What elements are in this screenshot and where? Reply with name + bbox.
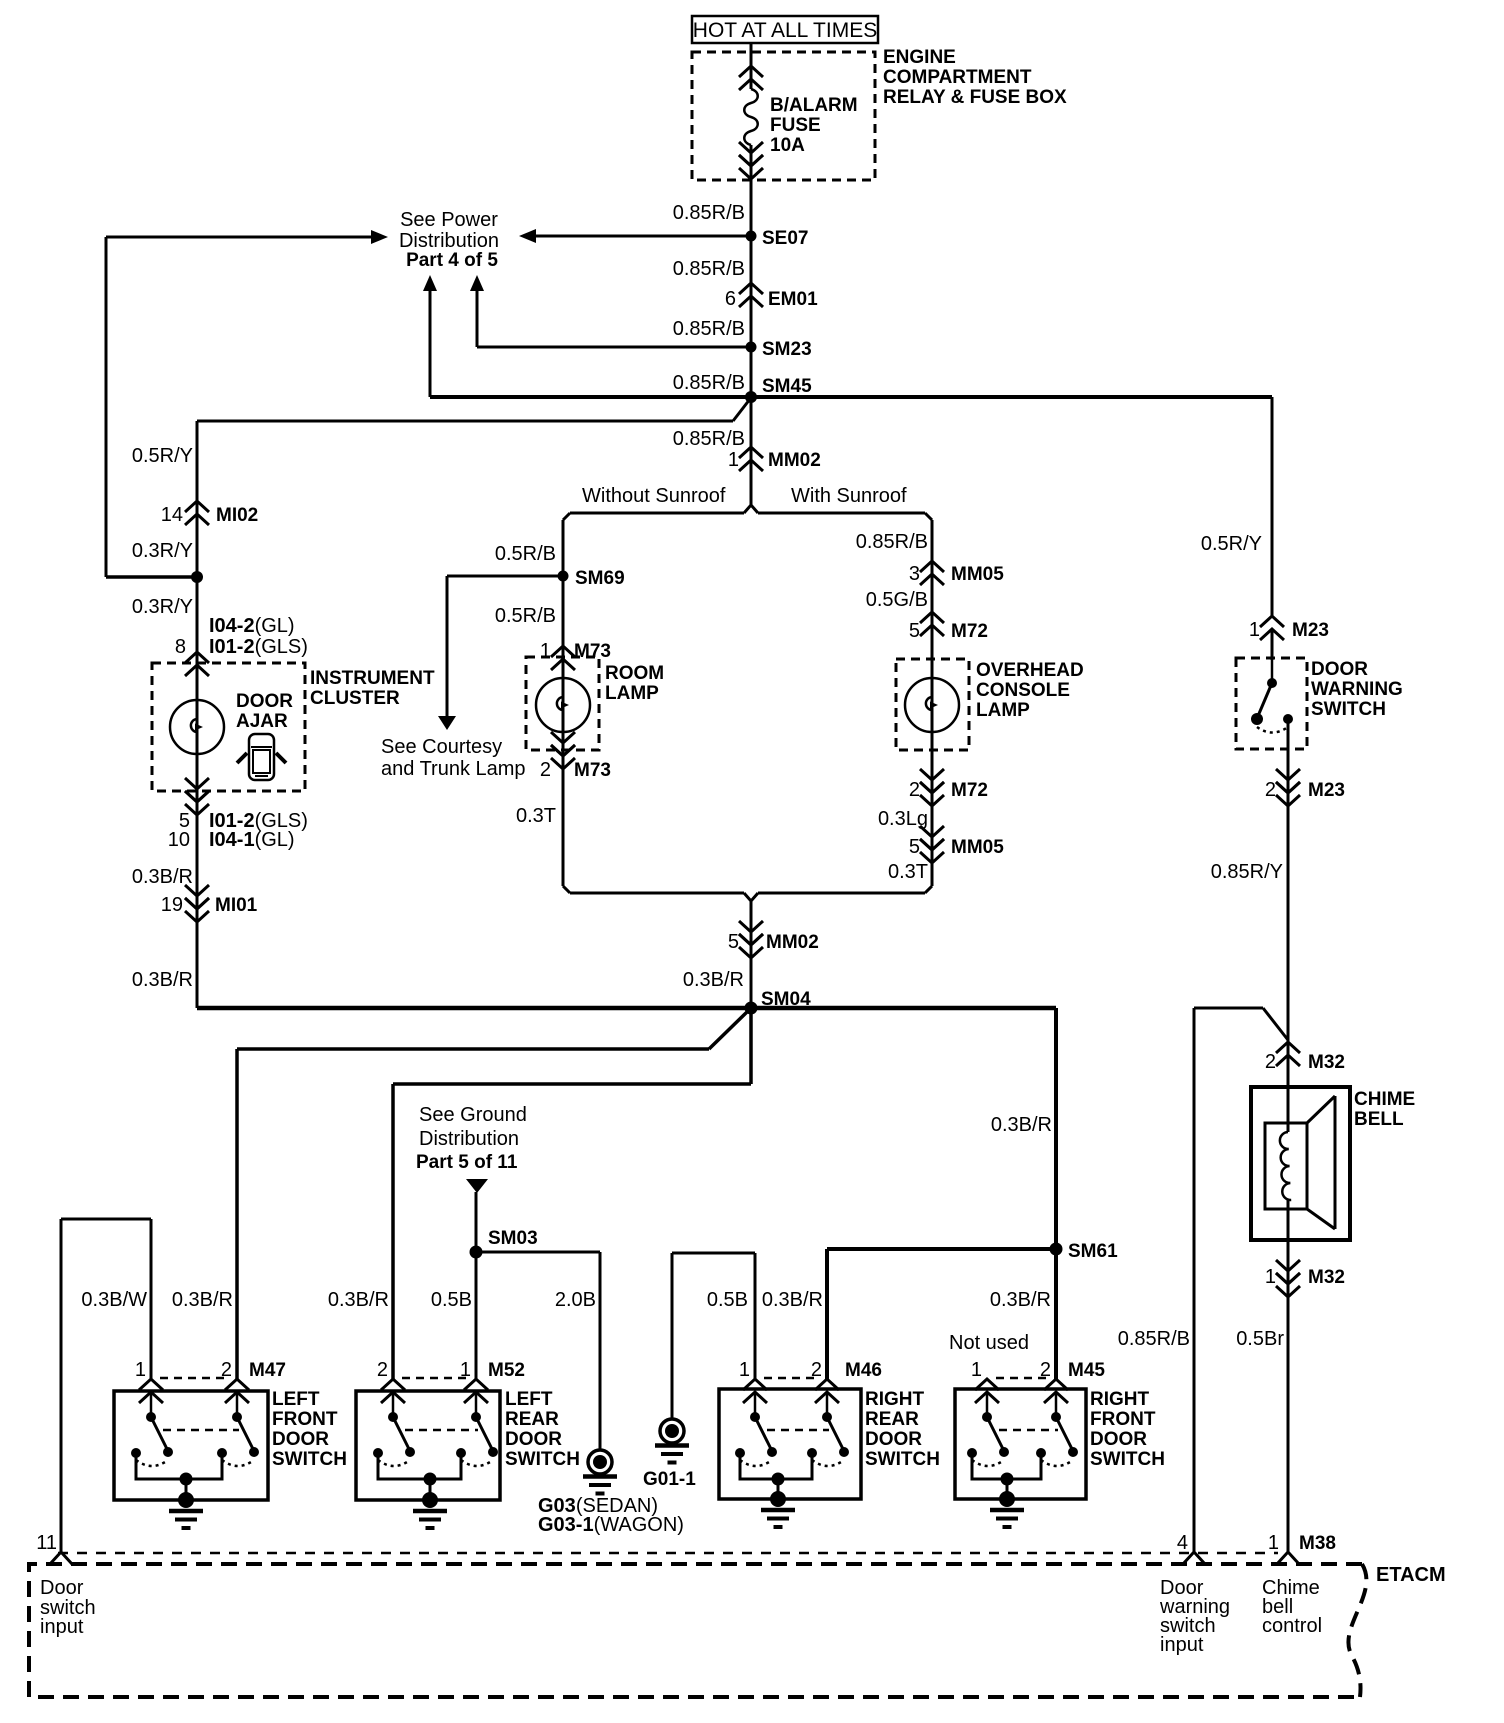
svg-text:RIGHT: RIGHT bbox=[1090, 1389, 1150, 1410]
svg-text:ETACM: ETACM bbox=[1376, 1564, 1446, 1586]
svg-text:M73: M73 bbox=[574, 760, 611, 781]
svg-text:CONSOLE: CONSOLE bbox=[976, 680, 1070, 701]
svg-text:0.5R/B: 0.5R/B bbox=[495, 605, 556, 627]
svg-text:REAR: REAR bbox=[505, 1409, 559, 1430]
svg-text:Door: Door bbox=[40, 1577, 84, 1599]
svg-text:0.85R/B: 0.85R/B bbox=[1118, 1328, 1190, 1350]
svg-text:2: 2 bbox=[909, 779, 920, 801]
svg-text:6: 6 bbox=[725, 288, 736, 310]
svg-text:10: 10 bbox=[168, 829, 190, 851]
svg-text:2: 2 bbox=[540, 759, 551, 781]
svg-text:With Sunroof: With Sunroof bbox=[791, 485, 907, 507]
svg-text:AJAR: AJAR bbox=[236, 711, 288, 732]
svg-text:1: 1 bbox=[728, 449, 739, 471]
svg-text:2.0B: 2.0B bbox=[555, 1289, 596, 1311]
svg-text:MM02: MM02 bbox=[768, 450, 821, 471]
svg-text:Distribution: Distribution bbox=[419, 1128, 519, 1150]
svg-text:0.85R/B: 0.85R/B bbox=[673, 258, 745, 280]
svg-text:1: 1 bbox=[739, 1359, 750, 1381]
svg-text:M52: M52 bbox=[488, 1360, 525, 1381]
svg-text:0.3B/R: 0.3B/R bbox=[132, 969, 193, 991]
svg-text:1: 1 bbox=[1249, 619, 1260, 641]
svg-text:See Ground: See Ground bbox=[419, 1104, 527, 1126]
svg-text:0.5G/B: 0.5G/B bbox=[866, 589, 928, 611]
svg-text:0.3B/R: 0.3B/R bbox=[762, 1289, 823, 1311]
svg-text:SWITCH: SWITCH bbox=[1311, 699, 1386, 720]
svg-text:2: 2 bbox=[1265, 779, 1276, 801]
svg-text:8: 8 bbox=[175, 636, 186, 658]
svg-text:G01-1: G01-1 bbox=[643, 1469, 696, 1490]
svg-text:0.3B/R: 0.3B/R bbox=[683, 969, 744, 991]
svg-text:LAMP: LAMP bbox=[605, 683, 659, 704]
svg-text:11: 11 bbox=[36, 1532, 57, 1554]
svg-text:0.3R/Y: 0.3R/Y bbox=[132, 596, 193, 618]
svg-text:1: 1 bbox=[540, 640, 551, 662]
svg-text:0.5B: 0.5B bbox=[431, 1289, 472, 1311]
svg-text:M72: M72 bbox=[951, 621, 988, 642]
svg-text:See Courtesy: See Courtesy bbox=[381, 736, 502, 758]
svg-text:LAMP: LAMP bbox=[976, 700, 1030, 721]
svg-text:0.5R/Y: 0.5R/Y bbox=[1201, 533, 1262, 555]
svg-text:I04-1(GL): I04-1(GL) bbox=[209, 829, 295, 851]
svg-text:Not used: Not used bbox=[949, 1332, 1029, 1354]
svg-text:FRONT: FRONT bbox=[272, 1409, 338, 1430]
svg-text:3: 3 bbox=[909, 563, 920, 585]
svg-text:5: 5 bbox=[909, 620, 920, 642]
svg-text:0.85R/B: 0.85R/B bbox=[673, 428, 745, 450]
svg-text:DOOR: DOOR bbox=[236, 691, 293, 712]
svg-text:Distribution: Distribution bbox=[399, 230, 499, 252]
svg-text:MM05: MM05 bbox=[951, 837, 1004, 858]
svg-text:EM01: EM01 bbox=[768, 289, 818, 310]
svg-text:ROOM: ROOM bbox=[605, 663, 664, 684]
svg-text:0.3B/R: 0.3B/R bbox=[991, 1114, 1052, 1136]
svg-text:REAR: REAR bbox=[865, 1409, 919, 1430]
svg-text:M73: M73 bbox=[574, 641, 611, 662]
svg-text:and Trunk Lamp: and Trunk Lamp bbox=[381, 758, 526, 780]
svg-text:1: 1 bbox=[1265, 1266, 1276, 1288]
svg-text:1: 1 bbox=[1268, 1532, 1279, 1554]
svg-text:1: 1 bbox=[971, 1359, 982, 1381]
svg-text:1: 1 bbox=[135, 1359, 146, 1381]
svg-text:2: 2 bbox=[377, 1359, 388, 1381]
svg-text:SM23: SM23 bbox=[762, 339, 812, 360]
svg-text:M46: M46 bbox=[845, 1360, 882, 1381]
svg-text:0.3B/R: 0.3B/R bbox=[132, 866, 193, 888]
svg-text:0.85R/B: 0.85R/B bbox=[673, 318, 745, 340]
svg-text:4: 4 bbox=[1177, 1532, 1188, 1554]
svg-text:COMPARTMENT: COMPARTMENT bbox=[883, 67, 1032, 88]
svg-text:0.85R/B: 0.85R/B bbox=[673, 372, 745, 394]
svg-text:0.3B/R: 0.3B/R bbox=[990, 1289, 1051, 1311]
svg-text:0.5R/Y: 0.5R/Y bbox=[132, 445, 193, 467]
svg-text:M47: M47 bbox=[249, 1360, 286, 1381]
svg-text:0.3B/R: 0.3B/R bbox=[328, 1289, 389, 1311]
svg-text:WARNING: WARNING bbox=[1311, 679, 1403, 700]
svg-text:M32: M32 bbox=[1308, 1052, 1345, 1073]
svg-text:B/ALARM: B/ALARM bbox=[770, 95, 858, 116]
svg-text:HOT AT ALL TIMES: HOT AT ALL TIMES bbox=[693, 19, 877, 42]
svg-text:M45: M45 bbox=[1068, 1360, 1105, 1381]
svg-text:input: input bbox=[40, 1616, 84, 1638]
svg-text:0.3R/Y: 0.3R/Y bbox=[132, 540, 193, 562]
svg-text:control: control bbox=[1262, 1615, 1322, 1637]
svg-text:CLUSTER: CLUSTER bbox=[310, 688, 400, 709]
svg-text:DOOR: DOOR bbox=[272, 1429, 329, 1450]
svg-text:0.5R/B: 0.5R/B bbox=[495, 543, 556, 565]
svg-text:LEFT: LEFT bbox=[505, 1389, 553, 1410]
svg-text:See Power: See Power bbox=[400, 209, 498, 231]
svg-text:0.3T: 0.3T bbox=[888, 861, 928, 883]
svg-text:10A: 10A bbox=[770, 135, 805, 156]
svg-text:2: 2 bbox=[1265, 1051, 1276, 1073]
svg-text:MI02: MI02 bbox=[216, 505, 258, 526]
svg-text:SM69: SM69 bbox=[575, 568, 625, 589]
svg-text:I04-2(GL): I04-2(GL) bbox=[209, 615, 295, 637]
svg-text:ENGINE: ENGINE bbox=[883, 47, 956, 68]
svg-text:0.85R/B: 0.85R/B bbox=[856, 531, 928, 553]
svg-text:Part 5 of 11: Part 5 of 11 bbox=[416, 1152, 518, 1173]
svg-text:SWITCH: SWITCH bbox=[505, 1449, 580, 1470]
svg-text:SM03: SM03 bbox=[488, 1228, 538, 1249]
svg-text:0.85R/Y: 0.85R/Y bbox=[1211, 861, 1283, 883]
svg-text:SE07: SE07 bbox=[762, 228, 808, 249]
svg-text:DOOR: DOOR bbox=[505, 1429, 562, 1450]
svg-text:M38: M38 bbox=[1299, 1533, 1336, 1554]
svg-text:SM45: SM45 bbox=[762, 376, 812, 397]
svg-text:Without Sunroof: Without Sunroof bbox=[582, 485, 726, 507]
svg-text:5: 5 bbox=[909, 836, 920, 858]
svg-text:BELL: BELL bbox=[1354, 1109, 1404, 1130]
svg-text:M72: M72 bbox=[951, 780, 988, 801]
svg-text:FUSE: FUSE bbox=[770, 115, 821, 136]
svg-text:0.5B: 0.5B bbox=[707, 1289, 748, 1311]
svg-text:0.3B/W: 0.3B/W bbox=[81, 1289, 147, 1311]
svg-text:0.5Br: 0.5Br bbox=[1236, 1328, 1284, 1350]
svg-text:FRONT: FRONT bbox=[1090, 1409, 1156, 1430]
svg-text:MM02: MM02 bbox=[766, 932, 819, 953]
svg-text:DOOR: DOOR bbox=[1311, 659, 1368, 680]
svg-text:5: 5 bbox=[728, 931, 739, 953]
svg-text:M32: M32 bbox=[1308, 1267, 1345, 1288]
svg-text:DOOR: DOOR bbox=[865, 1429, 922, 1450]
svg-text:0.3T: 0.3T bbox=[516, 805, 556, 827]
svg-text:MI01: MI01 bbox=[215, 895, 258, 916]
svg-text:MM05: MM05 bbox=[951, 564, 1004, 585]
svg-text:LEFT: LEFT bbox=[272, 1389, 320, 1410]
svg-text:CHIME: CHIME bbox=[1354, 1089, 1415, 1110]
svg-text:SWITCH: SWITCH bbox=[272, 1449, 347, 1470]
svg-text:SWITCH: SWITCH bbox=[1090, 1449, 1165, 1470]
svg-text:19: 19 bbox=[161, 894, 183, 916]
svg-text:0.3B/R: 0.3B/R bbox=[172, 1289, 233, 1311]
svg-text:OVERHEAD: OVERHEAD bbox=[976, 660, 1084, 681]
svg-text:DOOR: DOOR bbox=[1090, 1429, 1147, 1450]
svg-text:RIGHT: RIGHT bbox=[865, 1389, 925, 1410]
svg-text:INSTRUMENT: INSTRUMENT bbox=[310, 668, 435, 689]
svg-text:G03-1(WAGON): G03-1(WAGON) bbox=[538, 1514, 684, 1536]
svg-text:input: input bbox=[1160, 1634, 1204, 1656]
svg-text:M23: M23 bbox=[1308, 780, 1345, 801]
svg-text:SWITCH: SWITCH bbox=[865, 1449, 940, 1470]
svg-text:I01-2(GLS): I01-2(GLS) bbox=[209, 636, 308, 658]
svg-text:14: 14 bbox=[161, 504, 183, 526]
svg-text:RELAY & FUSE BOX: RELAY & FUSE BOX bbox=[883, 87, 1067, 108]
svg-text:M23: M23 bbox=[1292, 620, 1329, 641]
svg-text:0.85R/B: 0.85R/B bbox=[673, 202, 745, 224]
svg-text:Part 4 of 5: Part 4 of 5 bbox=[406, 250, 498, 271]
svg-text:SM61: SM61 bbox=[1068, 1241, 1118, 1262]
